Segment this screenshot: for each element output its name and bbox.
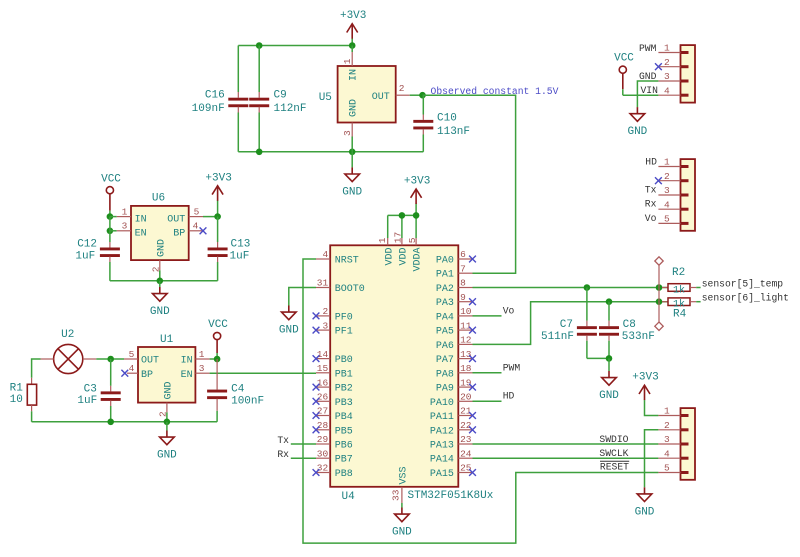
connector J3 pin 2	[658, 429, 680, 431]
wire U5 OUT to PA1	[423, 95, 516, 273]
U4 pin 28 PB5	[316, 429, 330, 431]
wire PA14 SWCLK	[473, 457, 659, 459]
junction C3 top	[107, 356, 114, 363]
U1 pin 4 BP no-connect	[127, 372, 138, 374]
svg-text:R1: R1	[10, 382, 24, 394]
U4 pin 8 PA2	[458, 287, 472, 289]
capacitor C8	[608, 302, 610, 321]
connector J1 pin 1	[658, 52, 680, 54]
svg-text:1uF: 1uF	[77, 395, 97, 407]
U4 pin 16 PB2	[316, 386, 330, 388]
svg-text:2: 2	[664, 171, 670, 182]
svg-text:PB2: PB2	[335, 384, 353, 395]
svg-text:VCC: VCC	[208, 319, 228, 331]
U4 pin 26 PB3	[316, 400, 330, 402]
svg-text:PA7: PA7	[436, 355, 454, 366]
svg-text:PF0: PF0	[335, 312, 353, 323]
regulator U6 body	[131, 206, 189, 260]
svg-text:PA10: PA10	[430, 398, 454, 409]
capacitor C7	[586, 288, 588, 321]
U6 pin 2 GND	[159, 260, 161, 270]
connector J3 pin 5	[658, 472, 680, 474]
svg-text:+3V3: +3V3	[340, 10, 366, 22]
svg-text:21: 21	[460, 406, 472, 417]
wire C7 to C8 ground	[587, 357, 609, 359]
wire NRST net to RESET	[303, 259, 658, 543]
no-connect J2 pin 2	[655, 177, 662, 184]
svg-text:PB7: PB7	[335, 455, 353, 466]
svg-text:HD: HD	[503, 391, 515, 402]
svg-text:U5: U5	[319, 92, 332, 104]
svg-text:VDDA: VDDA	[413, 247, 424, 271]
svg-text:IN: IN	[181, 356, 193, 367]
svg-text:Tx: Tx	[277, 435, 289, 446]
svg-text:C3: C3	[84, 383, 97, 395]
wire pin2 to ground	[645, 430, 659, 488]
svg-text:12: 12	[460, 335, 472, 346]
capacitor C12	[109, 231, 111, 242]
svg-text:10: 10	[460, 306, 472, 317]
U4 pin 9 PA3	[458, 301, 472, 303]
svg-text:C13: C13	[231, 238, 251, 250]
svg-text:PA1: PA1	[436, 270, 454, 281]
svg-text:GND: GND	[599, 390, 619, 402]
U4 pin 18 PA8	[458, 372, 472, 374]
svg-text:NRST: NRST	[335, 256, 359, 267]
svg-text:GND: GND	[627, 126, 647, 138]
wire EN to PB1	[210, 372, 316, 374]
svg-text:2: 2	[158, 411, 169, 417]
U4 pin 15 PB1	[316, 372, 330, 374]
svg-text:GND: GND	[164, 381, 175, 399]
U4 pin 11 PA5	[458, 329, 472, 331]
svg-text:PWM: PWM	[503, 362, 521, 373]
svg-text:VDD: VDD	[399, 247, 410, 265]
svg-text:27: 27	[317, 406, 328, 417]
power flag +3V3 (U5 input)	[351, 38, 353, 45]
svg-text:14: 14	[317, 349, 329, 360]
wire +3V3 to pin1	[645, 400, 659, 415]
svg-text:Vo: Vo	[503, 306, 515, 317]
junction VDDA pin5	[413, 212, 420, 219]
svg-text:+3V3: +3V3	[404, 176, 430, 188]
ground GND under J1	[636, 107, 638, 113]
svg-text:IN: IN	[349, 69, 360, 81]
svg-text:3: 3	[664, 434, 670, 445]
svg-text:24: 24	[460, 448, 472, 459]
svg-text:1: 1	[122, 206, 128, 217]
ground GND under U6	[159, 281, 161, 287]
svg-text:4: 4	[664, 448, 670, 459]
svg-text:1: 1	[664, 406, 670, 417]
svg-text:16: 16	[317, 377, 329, 388]
svg-text:sensor[6]_light: sensor[6]_light	[702, 293, 789, 304]
ground GND for BOOT0	[288, 306, 290, 312]
connector J2 pin 3	[658, 194, 680, 196]
capacitor C4	[216, 359, 218, 390]
svg-text:PA0: PA0	[436, 256, 454, 267]
U4 pin 17 VDD	[401, 238, 403, 245]
U6 pin 3 EN	[110, 230, 117, 232]
svg-text:STM32F051K8Ux: STM32F051K8Ux	[408, 490, 494, 502]
svg-text:19: 19	[460, 377, 472, 388]
U4 pin 4 NRST	[316, 258, 330, 260]
capacitor C3	[110, 359, 112, 386]
junction VDD pin17	[399, 212, 406, 219]
svg-text:U4: U4	[342, 491, 356, 503]
svg-text:4: 4	[664, 199, 670, 210]
connector J2 body	[681, 159, 696, 231]
svg-text:2: 2	[664, 57, 670, 68]
svg-text:25: 25	[460, 463, 472, 474]
svg-text:C16: C16	[205, 89, 225, 101]
svg-text:GND: GND	[349, 99, 360, 117]
svg-text:4: 4	[664, 85, 670, 96]
svg-text:OUT: OUT	[167, 214, 185, 225]
U4 pin 5 VDDA	[415, 238, 417, 245]
junction U6 pin3	[107, 228, 114, 235]
svg-text:1k: 1k	[673, 284, 685, 296]
junction U1 GND	[164, 419, 171, 426]
svg-text:PB0: PB0	[335, 355, 353, 366]
svg-text:SWDIO: SWDIO	[599, 434, 628, 445]
svg-text:BP: BP	[173, 229, 185, 240]
junction U1 IN / C4 / VCC	[214, 356, 221, 363]
U4 pin 7 PA1	[458, 272, 472, 274]
svg-text:R4: R4	[673, 309, 687, 321]
svg-text:2: 2	[399, 83, 405, 94]
svg-text:U6: U6	[152, 192, 165, 204]
svg-text:5: 5	[407, 237, 418, 243]
U5 pin 3 GND	[351, 123, 353, 137]
diamond bottom dangling end	[655, 322, 663, 330]
svg-text:PA9: PA9	[436, 384, 454, 395]
U4 pin 14 PB0	[316, 358, 330, 360]
wire PA6 sensor net	[473, 302, 669, 345]
svg-text:IN: IN	[135, 214, 147, 225]
svg-text:PB4: PB4	[335, 412, 353, 423]
svg-text:C7: C7	[560, 319, 573, 331]
svg-text:3: 3	[322, 320, 328, 331]
regulator U5 body	[338, 66, 396, 123]
wire R1 to ground rail	[31, 411, 33, 422]
svg-text:22: 22	[460, 420, 472, 431]
svg-text:4: 4	[193, 221, 199, 232]
svg-text:PB6: PB6	[335, 441, 353, 452]
svg-text:PF1: PF1	[335, 327, 353, 338]
svg-text:10: 10	[10, 394, 23, 406]
U4 pin 31 BOOT0	[316, 287, 330, 289]
svg-text:33: 33	[391, 489, 402, 501]
svg-text:13: 13	[460, 349, 472, 360]
wire C4 to ground rail	[216, 411, 218, 422]
U4 pin 10 PA4	[458, 315, 472, 317]
svg-text:EN: EN	[181, 370, 193, 381]
wire U2 to R1	[32, 359, 41, 378]
svg-text:C9: C9	[274, 89, 287, 101]
resistor R1	[31, 378, 33, 385]
svg-text:C10: C10	[437, 112, 457, 124]
svg-text:29: 29	[317, 434, 329, 445]
U4 pin 2 PF0	[316, 315, 330, 317]
power flag +3V3 (U4 VDD)	[415, 204, 417, 216]
junction R2 left	[656, 284, 663, 291]
svg-text:5: 5	[664, 463, 670, 474]
wire PA8 PWM	[473, 372, 502, 374]
svg-text:1: 1	[664, 43, 670, 54]
connector J2 pin 2	[658, 180, 680, 182]
svg-text:Rx: Rx	[645, 199, 657, 210]
svg-text:PA5: PA5	[436, 327, 454, 338]
svg-text:PA6: PA6	[436, 341, 454, 352]
U6 pin 1 IN	[110, 216, 117, 218]
connector J2 pin 5	[658, 222, 680, 224]
U4 pin 13 PA7	[458, 358, 472, 360]
svg-text:1uF: 1uF	[75, 250, 95, 262]
U4 pin 20 PA10	[458, 400, 472, 402]
svg-text:3: 3	[199, 363, 205, 374]
capacitor C16	[237, 46, 239, 93]
connector J3 pin 4	[658, 457, 680, 459]
svg-text:30: 30	[317, 448, 329, 459]
U1 pin 1 IN	[195, 358, 209, 360]
svg-text:VDD: VDD	[384, 247, 395, 265]
svg-text:Vo: Vo	[645, 213, 657, 224]
junction U5 output	[419, 92, 426, 99]
capacitor C13	[217, 217, 219, 242]
U5 pin 1 IN	[351, 46, 353, 53]
U4 pin 29 PB6	[316, 443, 330, 445]
svg-text:RESET: RESET	[600, 462, 629, 473]
svg-text:2: 2	[322, 306, 328, 317]
svg-text:U1: U1	[160, 334, 174, 346]
svg-text:18: 18	[460, 363, 472, 374]
svg-text:28: 28	[317, 420, 329, 431]
U4 pin 22 PA12	[458, 429, 472, 431]
svg-text:2: 2	[664, 420, 670, 431]
wire PA13 SWDIO	[473, 443, 659, 445]
regulator U1 body	[138, 347, 195, 403]
svg-text:113nF: 113nF	[437, 126, 470, 138]
svg-text:26: 26	[317, 392, 329, 403]
svg-text:GND: GND	[342, 186, 362, 198]
no-connect J1 pin 2	[655, 63, 662, 70]
svg-text:VCC: VCC	[614, 52, 634, 64]
U4 pin 27 PB4	[316, 415, 330, 417]
connector J1 pin 2	[658, 66, 680, 68]
svg-text:PA4: PA4	[436, 312, 454, 323]
svg-text:OUT: OUT	[372, 92, 390, 103]
svg-text:20: 20	[460, 392, 472, 403]
wire GND rail under U5	[238, 151, 423, 153]
svg-text:PB3: PB3	[335, 398, 353, 409]
wire Rx to PB7	[291, 457, 316, 459]
wire BOOT0 to ground	[289, 288, 316, 306]
svg-text:OUT: OUT	[141, 356, 159, 367]
junction U5 pin1	[349, 42, 356, 49]
junction R4 left	[656, 298, 663, 305]
svg-text:7: 7	[460, 263, 466, 274]
svg-text:112nF: 112nF	[274, 103, 307, 115]
junction U6 pin5 output	[214, 213, 221, 220]
junction U6 GND	[157, 278, 164, 285]
svg-text:PA11: PA11	[430, 412, 454, 423]
svg-text:1uF: 1uF	[230, 250, 250, 262]
svg-text:3: 3	[342, 130, 353, 136]
svg-text:C12: C12	[77, 238, 97, 250]
svg-text:GND: GND	[157, 450, 177, 462]
svg-text:PWM: PWM	[639, 43, 657, 54]
svg-text:109nF: 109nF	[192, 103, 225, 115]
wire PA2 sensor net	[473, 287, 669, 289]
U4 pin 19 PA9	[458, 386, 472, 388]
power flag +3V3 (U6 output)	[217, 200, 219, 216]
junction U5 pin3 GND	[349, 149, 356, 156]
connector J1 pin 3	[658, 80, 680, 82]
U1 pin 3 EN	[195, 372, 209, 374]
diamond top dangling end	[655, 257, 663, 265]
svg-text:C8: C8	[623, 319, 636, 331]
svg-text:11: 11	[460, 320, 472, 331]
ground GND under U5	[351, 152, 353, 168]
svg-text:sensor[5]_temp: sensor[5]_temp	[702, 278, 784, 289]
svg-text:533nF: 533nF	[622, 331, 655, 343]
U4 pin 12 PA6	[458, 343, 472, 345]
svg-text:PA3: PA3	[436, 298, 454, 309]
svg-text:6: 6	[460, 249, 466, 260]
svg-text:PA8: PA8	[436, 369, 454, 380]
svg-text:PA14: PA14	[430, 455, 454, 466]
svg-text:GND: GND	[150, 306, 170, 318]
svg-text:C4: C4	[231, 383, 245, 395]
svg-text:3: 3	[122, 221, 128, 232]
U4 pin 25 PA15	[458, 472, 472, 474]
U1 pin 2 GND	[166, 403, 168, 413]
svg-text:3: 3	[664, 71, 670, 82]
wire PA10 HD	[473, 400, 502, 402]
svg-text:GND: GND	[392, 527, 412, 539]
wire +3V3 rail to C16/C9	[238, 45, 352, 47]
U2 right pin	[83, 358, 97, 360]
ground GND under J3	[644, 487, 646, 493]
svg-text:2: 2	[151, 266, 162, 272]
capacitor C10	[422, 95, 424, 114]
wire VCC to VIN	[623, 94, 659, 96]
svg-text:R2: R2	[672, 267, 685, 279]
ground GND under U1	[166, 422, 168, 431]
U4 pin 23 PA13	[458, 443, 472, 445]
svg-text:5: 5	[664, 214, 670, 225]
U4 pin 21 PA11	[458, 415, 472, 417]
svg-text:BOOT0: BOOT0	[335, 284, 365, 295]
dangling wire R2/R4 column	[658, 265, 660, 322]
wire VDD rail	[388, 214, 416, 216]
svg-text:23: 23	[460, 434, 472, 445]
power flag VCC (U1 input)	[214, 332, 221, 339]
wire U2 to U1 OUT	[96, 358, 124, 360]
svg-text:GND: GND	[279, 325, 299, 337]
capacitor C9	[258, 46, 260, 93]
junction C9 top	[256, 42, 263, 49]
junction C9 bottom	[256, 149, 263, 156]
svg-text:+3V3: +3V3	[205, 172, 231, 184]
junction C3 bottom	[107, 419, 114, 426]
lamp U2	[54, 344, 83, 373]
connector J3 body	[681, 408, 696, 480]
junction C7 top on PA2 net	[584, 284, 591, 291]
U4 pin 6 PA0	[458, 258, 472, 260]
svg-text:EN: EN	[135, 229, 147, 240]
svg-text:PB8: PB8	[335, 469, 353, 480]
svg-text:Tx: Tx	[645, 185, 657, 196]
svg-text:PA2: PA2	[436, 284, 454, 295]
svg-text:GND: GND	[156, 239, 167, 257]
svg-text:PB1: PB1	[335, 369, 353, 380]
svg-text:100nF: 100nF	[231, 396, 264, 408]
connector J1 pin 4	[658, 94, 680, 96]
svg-text:PA15: PA15	[430, 469, 454, 480]
svg-text:5: 5	[194, 206, 200, 217]
svg-text:SWCLK: SWCLK	[599, 448, 628, 459]
svg-text:PB5: PB5	[335, 426, 353, 437]
svg-text:Rx: Rx	[277, 449, 289, 460]
connector J2 pin 4	[658, 208, 680, 210]
wire PA4 Vo	[473, 315, 502, 317]
svg-text:3: 3	[664, 185, 670, 196]
svg-text:1: 1	[377, 237, 388, 243]
svg-text:VSS: VSS	[399, 466, 410, 484]
power flag VCC (U6 input)	[106, 187, 113, 194]
power flag VCC (J1)	[619, 66, 626, 73]
svg-text:32: 32	[317, 463, 329, 474]
U4 pin 1 VDD	[387, 238, 389, 245]
svg-text:U2: U2	[61, 329, 74, 341]
svg-text:1: 1	[342, 58, 353, 64]
junction C8 top on PA6 net	[606, 298, 613, 305]
svg-text:8: 8	[460, 278, 466, 289]
svg-text:31: 31	[317, 278, 329, 289]
U4 pin 24 PA14	[458, 457, 472, 459]
svg-text:PA12: PA12	[430, 426, 454, 437]
svg-text:PA13: PA13	[430, 441, 454, 452]
power flag +3V3 (SWD connector)	[644, 399, 646, 401]
svg-text:+3V3: +3V3	[632, 372, 658, 384]
U1 pin 5 OUT	[124, 358, 138, 360]
svg-text:GND: GND	[635, 506, 655, 518]
mcu U4 body	[330, 245, 458, 486]
wire VCC to EN	[109, 217, 111, 231]
svg-text:4: 4	[129, 363, 135, 374]
junction C8 bottom	[606, 355, 613, 362]
connector J3 pin 1	[658, 415, 680, 417]
wire Tx to PB6	[291, 443, 316, 445]
svg-text:1: 1	[199, 349, 205, 360]
connector J3 pin 3	[658, 443, 680, 445]
svg-text:17: 17	[393, 232, 404, 243]
resistor R4 1k	[662, 301, 668, 303]
U4 pin 33 VSS	[401, 487, 403, 503]
resistor R2 1k	[662, 287, 668, 289]
svg-text:1: 1	[664, 157, 670, 168]
U4 pin 3 PF1	[316, 329, 330, 331]
ground GND under C7 C8	[608, 358, 610, 371]
svg-text:5: 5	[129, 349, 135, 360]
wire U1 ground rail	[32, 421, 218, 423]
svg-text:BP: BP	[141, 370, 153, 381]
svg-text:HD: HD	[645, 157, 657, 168]
wire U6 ground rail	[110, 280, 218, 282]
svg-text:15: 15	[317, 363, 329, 374]
